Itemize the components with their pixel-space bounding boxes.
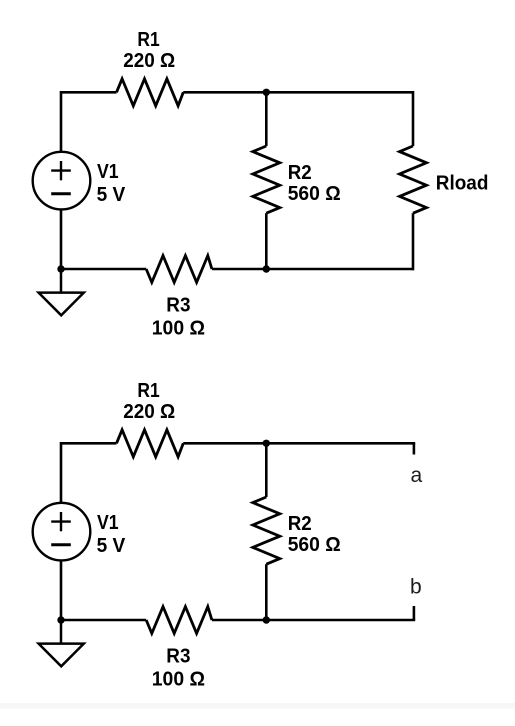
svg-text:220 Ω: 220 Ω — [123, 49, 175, 72]
wire R2 bottom lead 2 — [265, 564, 268, 620]
svg-text:220 Ω: 220 Ω — [123, 400, 175, 423]
svg-text:R1: R1 — [137, 28, 159, 51]
svg-text:a: a — [411, 464, 423, 487]
resistor R1 (second circuit) — [117, 430, 184, 457]
ground bottom circuit — [39, 620, 84, 666]
resistor R3 (second circuit) — [146, 607, 212, 634]
node junction bottom middle — [263, 265, 270, 272]
wire R2 top lead 2 — [265, 443, 268, 497]
wire left rail bottom 2 — [60, 560, 63, 620]
resistor R2 — [253, 146, 280, 213]
svg-text:5 V: 5 V — [97, 183, 126, 206]
resistor R1 — [117, 79, 184, 106]
node junction bottom left 2 — [57, 616, 64, 623]
svg-text:560 Ω: 560 Ω — [288, 182, 341, 205]
svg-text:100 Ω: 100 Ω — [152, 667, 205, 690]
node junction top 2 — [263, 440, 270, 447]
resistor R3 — [146, 256, 212, 283]
svg-text:R2: R2 — [288, 161, 312, 184]
svg-text:b: b — [410, 576, 422, 599]
svg-text:R3: R3 — [166, 645, 190, 668]
wire top middle segment — [183, 91, 413, 94]
svg-text:V1: V1 — [97, 511, 119, 534]
svg-text:560 Ω: 560 Ω — [288, 533, 341, 556]
svg-text:Rload: Rload — [436, 172, 489, 195]
svg-text:R2: R2 — [288, 512, 312, 535]
wire top-left rail — [61, 92, 117, 152]
node junction top — [263, 89, 270, 96]
wire left rail bottom — [60, 209, 63, 269]
svg-text:5 V: 5 V — [97, 534, 126, 557]
wire right rail bottom — [412, 213, 415, 270]
resistor R2 (second circuit) — [253, 497, 280, 564]
node junction bottom left — [57, 265, 64, 272]
terminal b stub — [413, 606, 416, 620]
wire R2 bottom lead — [265, 213, 268, 269]
wire top middle segment 2 — [183, 442, 415, 445]
voltage source V1 — [33, 152, 91, 210]
svg-text:100 Ω: 100 Ω — [152, 316, 205, 339]
wire bottom right segment — [212, 268, 413, 271]
svg-text:R3: R3 — [166, 294, 190, 317]
wire R2 top lead — [265, 92, 268, 146]
wire right rail top — [412, 91, 415, 146]
wire top-left rail 2 — [61, 443, 117, 503]
ground top circuit — [39, 269, 84, 315]
wire bottom left segment 2 — [61, 619, 146, 622]
wire bottom right segment 2 — [212, 619, 415, 622]
resistor Rload — [400, 146, 427, 213]
wire bottom left segment — [61, 268, 146, 271]
node junction bottom middle 2 — [263, 616, 270, 623]
bottom page divider line — [0, 703, 515, 709]
svg-text:V1: V1 — [97, 160, 119, 183]
svg-text:R1: R1 — [137, 379, 159, 402]
voltage source V1 (second circuit) — [33, 503, 91, 561]
terminal a stub — [413, 443, 416, 454]
